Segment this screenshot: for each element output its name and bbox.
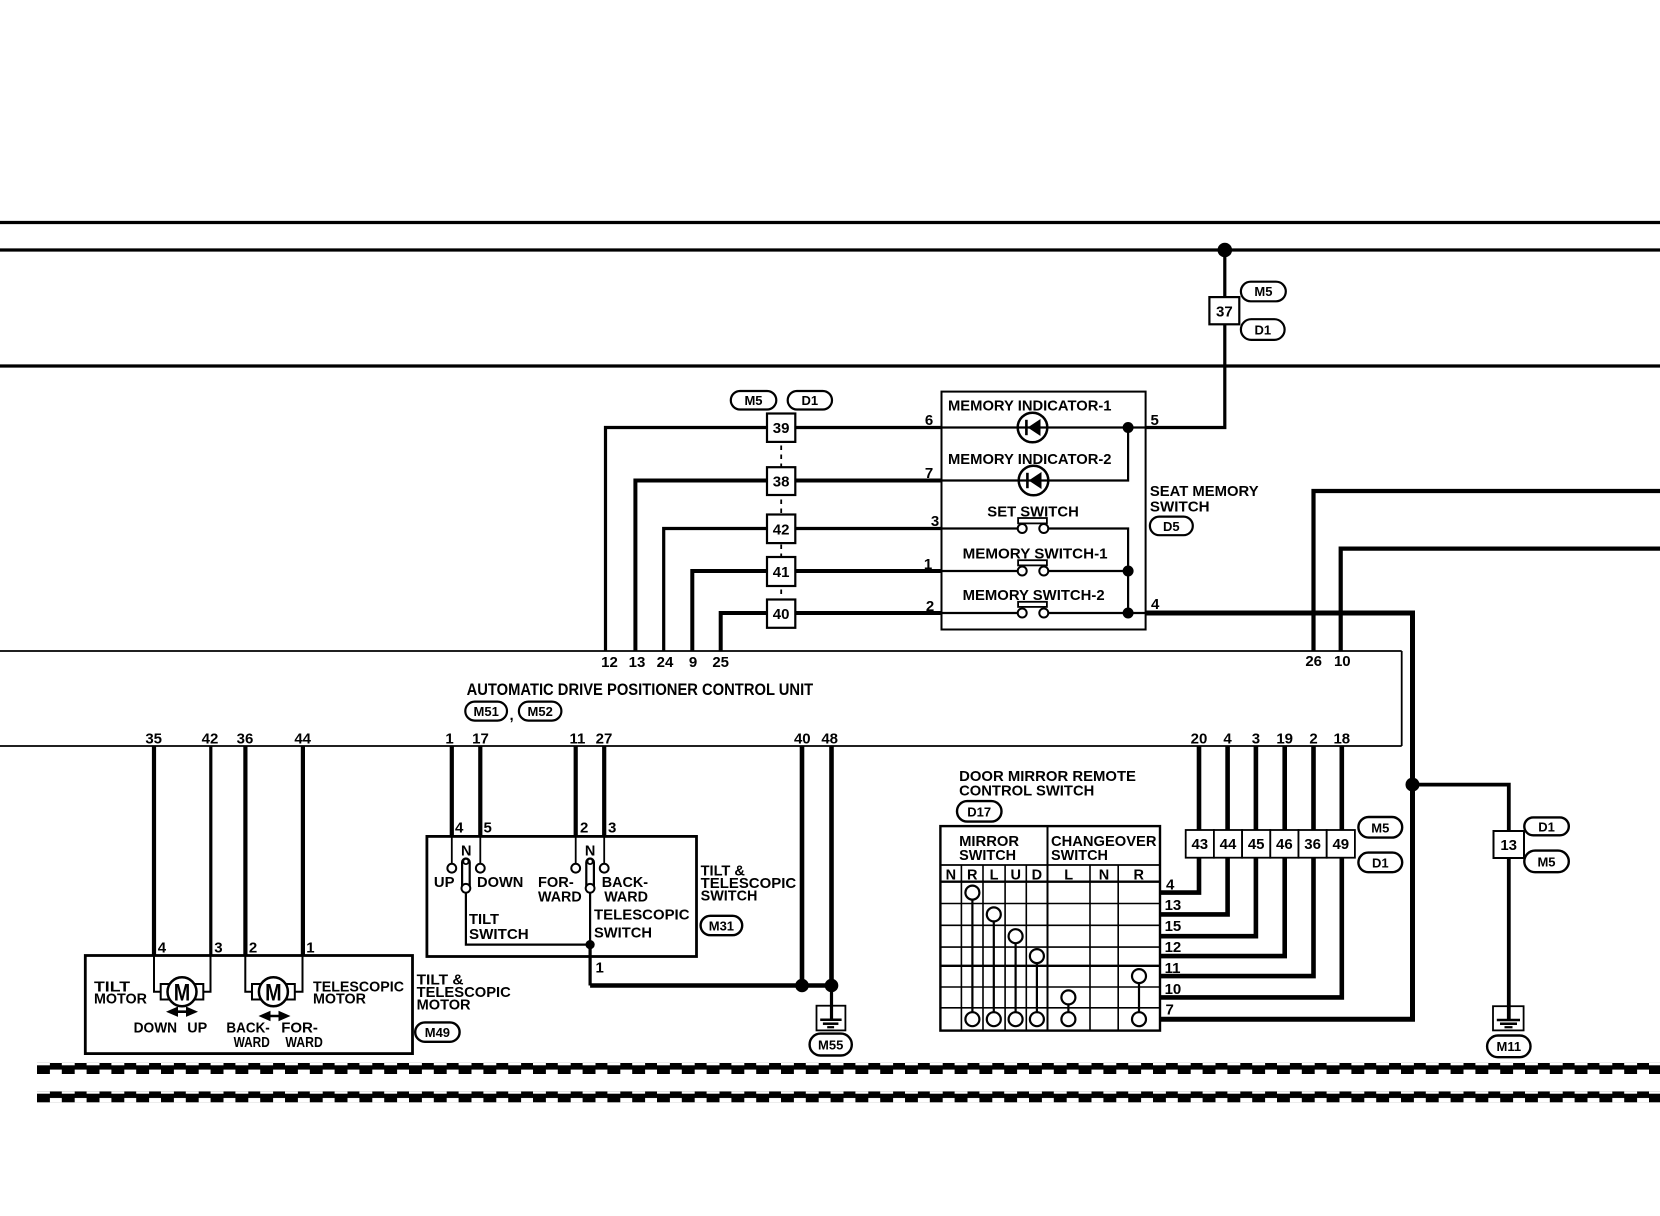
svg-text:1: 1 <box>924 556 932 573</box>
wire switch pin 1 down <box>588 945 591 986</box>
connector 40 <box>767 600 795 628</box>
contact row13 L <box>987 907 1001 921</box>
wire pin 1 to control unit pin 9 <box>692 571 941 651</box>
wire up contact stub <box>451 836 453 863</box>
wire bus line 3 <box>0 364 1660 367</box>
svg-text:15: 15 <box>1165 918 1182 935</box>
svg-text:M11: M11 <box>1497 1039 1522 1054</box>
wire memory switch-2 row right <box>1048 612 1145 614</box>
svg-text:43: 43 <box>1191 836 1208 853</box>
contact row7 R <box>965 1012 979 1026</box>
svg-text:AUTOMATIC DRIVE POSITIONER CON: AUTOMATIC DRIVE POSITIONER CONTROL UNIT <box>467 681 814 699</box>
wire tilt lever to junction <box>466 890 590 945</box>
wire pin 4 to mirror switch row 13 <box>1160 746 1228 914</box>
connector D17 oval <box>957 801 1002 822</box>
label telescopic switch <box>594 907 690 942</box>
svg-text:M51: M51 <box>474 704 499 719</box>
svg-text:M5: M5 <box>1537 855 1555 870</box>
wire contact link column L <box>993 921 995 1012</box>
svg-text:D1: D1 <box>1254 323 1271 338</box>
seat memory switch box D5 <box>942 392 1146 630</box>
contact row12 D <box>1030 949 1044 963</box>
connector 42 <box>767 515 795 544</box>
wire dashed link between connectors <box>780 428 782 614</box>
wire set switch row left <box>942 527 1018 529</box>
connector M5 oval above 39 <box>731 391 777 410</box>
label forward <box>538 874 582 906</box>
wire control unit pin 10 to right edge <box>1341 549 1660 651</box>
contact up <box>447 864 456 873</box>
connector 43 <box>1186 830 1214 858</box>
wire pin 40 to ground node <box>800 746 805 986</box>
svg-text:13: 13 <box>1165 897 1182 914</box>
wire contact link changeover L <box>1067 1004 1069 1012</box>
svg-text:D1: D1 <box>801 393 818 408</box>
contact row7 D <box>1030 1012 1044 1026</box>
wire pin 20 to mirror switch row 4 <box>1160 746 1199 893</box>
wire pin 35 to tilt motor <box>152 746 156 956</box>
svg-text:25: 25 <box>712 654 729 671</box>
node junction feed wire <box>1406 778 1420 792</box>
wire memory switch-1 row right <box>1048 570 1128 572</box>
wire contact link changeover R <box>1138 983 1140 1012</box>
wire contact link column R <box>971 900 973 1013</box>
node junction pin 40 <box>795 979 809 993</box>
svg-text:3: 3 <box>608 820 616 837</box>
label telescopic motor <box>313 979 404 1008</box>
svg-text:WARD: WARD <box>285 1034 323 1051</box>
svg-text:36: 36 <box>1304 836 1321 853</box>
svg-text:L: L <box>1064 868 1073 884</box>
svg-text:17: 17 <box>472 731 489 748</box>
svg-text:CONTROL SWITCH: CONTROL SWITCH <box>959 782 1094 799</box>
ground M55 <box>817 1006 846 1031</box>
wire contact link column D <box>1036 963 1038 1012</box>
contact row11 changeover R <box>1132 969 1146 983</box>
mirror switch table grid <box>940 826 1160 1031</box>
svg-text:M: M <box>265 980 282 1007</box>
svg-text:12: 12 <box>601 654 618 671</box>
wire telescopic lever to junction <box>589 890 591 945</box>
lever tilt switch N <box>461 844 471 893</box>
contact forward <box>571 864 580 873</box>
label tilt switch <box>469 911 529 943</box>
svg-text:48: 48 <box>821 731 838 748</box>
svg-text:7: 7 <box>925 465 933 482</box>
svg-text:SWITCH: SWITCH <box>959 847 1016 864</box>
ground M11 <box>1493 1006 1524 1030</box>
svg-text:1: 1 <box>445 731 453 748</box>
svg-text:4: 4 <box>1151 596 1160 613</box>
svg-text:1: 1 <box>306 940 314 957</box>
svg-text:39: 39 <box>773 420 790 437</box>
connector 49 <box>1327 830 1355 858</box>
svg-text:SWITCH: SWITCH <box>1051 847 1108 864</box>
svg-text:R: R <box>1134 868 1145 884</box>
svg-text:7: 7 <box>1166 1002 1174 1019</box>
arrow tilt motor direction <box>166 1007 198 1017</box>
set switch symbol <box>1018 518 1049 533</box>
connector D1 oval right of 13 <box>1524 817 1569 835</box>
svg-text:UP: UP <box>187 1020 207 1037</box>
wire seat memory pin 4 feed to mirror switch row 7 <box>1146 613 1413 1019</box>
svg-text:M55: M55 <box>818 1038 843 1053</box>
svg-text:N: N <box>461 844 471 860</box>
wire pin 17 to tilt switch <box>478 746 482 836</box>
wire pin 2 to mirror switch row 11 <box>1160 746 1314 976</box>
node junction memory switch-2 <box>1123 608 1134 619</box>
connector 13 <box>1494 831 1525 858</box>
svg-text:11: 11 <box>569 731 585 748</box>
memory switch-1 symbol <box>1018 560 1049 575</box>
page separator bar 2 <box>37 1091 1660 1102</box>
connector M11 oval <box>1487 1036 1530 1058</box>
svg-text:SET SWITCH: SET SWITCH <box>987 503 1079 520</box>
connector M51 oval <box>465 702 507 721</box>
wire to ground M55 <box>830 986 833 1020</box>
svg-text:41: 41 <box>773 564 790 581</box>
svg-text:M5: M5 <box>1371 821 1389 836</box>
connector 45 <box>1242 830 1270 858</box>
svg-text:2: 2 <box>1309 731 1317 748</box>
svg-text:40: 40 <box>773 606 790 623</box>
connector 39 <box>767 414 795 442</box>
contact down <box>476 864 485 873</box>
svg-text:3: 3 <box>1252 731 1260 748</box>
svg-text:D1: D1 <box>1372 856 1389 871</box>
connector D5 oval <box>1150 517 1193 536</box>
contact row10 changeover L <box>1061 990 1075 1004</box>
svg-text:36: 36 <box>237 731 254 748</box>
wire pin 6 to control unit pin 12 <box>606 428 942 652</box>
motor tilt M <box>161 977 204 1006</box>
contact row7 L <box>987 1012 1001 1026</box>
node junction indicator rows <box>1123 422 1134 433</box>
connector M49 oval <box>415 1022 459 1041</box>
svg-text:MEMORY SWITCH-2: MEMORY SWITCH-2 <box>963 587 1105 604</box>
wire pin 42 to tilt motor <box>209 746 212 956</box>
lever telescopic switch N <box>585 844 595 893</box>
svg-text:SWITCH: SWITCH <box>594 925 652 942</box>
svg-text:10: 10 <box>1334 653 1351 670</box>
label column letters <box>946 868 1145 884</box>
svg-text:2: 2 <box>249 940 257 957</box>
wire down contact stub <box>479 836 481 863</box>
contact row7 changeover L <box>1061 1012 1075 1026</box>
LED memory indicator-2 <box>1019 466 1049 496</box>
svg-text:24: 24 <box>657 654 674 671</box>
svg-text:13: 13 <box>1500 837 1517 854</box>
wire memory switch-2 row left <box>942 612 1018 614</box>
svg-text:M5: M5 <box>1254 284 1272 299</box>
wire switch pin 1 to ground node <box>590 983 831 988</box>
svg-text:37: 37 <box>1216 304 1233 321</box>
svg-text:42: 42 <box>773 521 790 538</box>
svg-text:2: 2 <box>926 598 934 615</box>
motor telescopic M <box>252 977 295 1006</box>
wire backward contact stub <box>603 836 605 863</box>
contact row15 U <box>1009 929 1023 943</box>
wire set switch row right <box>1048 529 1128 614</box>
svg-text:26: 26 <box>1305 653 1322 670</box>
svg-text:5: 5 <box>1151 412 1159 429</box>
svg-text:49: 49 <box>1332 836 1349 853</box>
svg-text:,: , <box>510 707 514 724</box>
svg-text:R: R <box>967 868 978 884</box>
connector D1 oval above 39 <box>788 391 832 410</box>
wire pin 19 to mirror switch row 12 <box>1160 746 1285 956</box>
label seat memory switch <box>1150 483 1259 515</box>
connector M31 oval <box>701 916 743 935</box>
wire from bus to seat memory switch pin 5 <box>1146 250 1225 428</box>
svg-text:38: 38 <box>773 474 790 491</box>
svg-text:M49: M49 <box>425 1025 450 1040</box>
label backward <box>602 874 648 906</box>
node junction switch common <box>586 940 595 949</box>
svg-text:27: 27 <box>596 731 613 748</box>
svg-text:DOWN: DOWN <box>134 1020 178 1037</box>
svg-text:MOTOR: MOTOR <box>313 990 366 1007</box>
wire control unit pin 26 to right edge <box>1314 491 1660 651</box>
wire bus line 2 <box>0 248 1660 251</box>
control unit box top edge <box>0 650 1402 652</box>
connector 44 <box>1214 830 1242 858</box>
contact row7 U <box>1009 1012 1023 1026</box>
control unit box right edge <box>1401 651 1403 746</box>
svg-text:D17: D17 <box>967 805 991 820</box>
connector 37 <box>1209 297 1239 324</box>
svg-text:42: 42 <box>202 731 219 748</box>
connector D1 oval <box>1241 319 1285 340</box>
wire pin 27 to telescopic switch <box>602 746 606 836</box>
svg-text:18: 18 <box>1333 731 1350 748</box>
contact row4 R <box>965 886 979 900</box>
connector M55 oval <box>810 1034 852 1056</box>
svg-text:WARD: WARD <box>604 888 648 905</box>
svg-text:MEMORY INDICATOR-2: MEMORY INDICATOR-2 <box>948 451 1112 468</box>
svg-text:4: 4 <box>1166 877 1175 894</box>
connector M5 oval <box>1241 282 1286 302</box>
connector D1 oval right of 49 <box>1358 853 1402 873</box>
wire bus line 1 <box>0 221 1660 224</box>
wire pin 3 to control unit pin 24 <box>664 529 942 652</box>
svg-text:N: N <box>585 844 595 860</box>
svg-text:UP: UP <box>434 874 455 891</box>
svg-text:44: 44 <box>1220 836 1237 853</box>
wire forward contact stub <box>575 836 577 863</box>
control unit box bottom edge <box>0 745 1402 747</box>
svg-text:10: 10 <box>1165 981 1182 998</box>
label tilt motor <box>94 979 147 1008</box>
svg-text:4: 4 <box>1223 731 1232 748</box>
svg-text:WARD: WARD <box>234 1034 270 1051</box>
svg-text:44: 44 <box>294 731 311 748</box>
wire pin 36 to telescopic motor <box>243 746 247 956</box>
svg-text:9: 9 <box>689 654 697 671</box>
tilt and telescopic motor box M49 <box>85 956 412 1054</box>
label door mirror remote control switch <box>959 768 1136 799</box>
wire junction to ground M11 <box>1413 785 1509 1020</box>
label changeover switch header <box>1051 833 1157 864</box>
svg-text:11: 11 <box>1165 960 1181 977</box>
wire pin 7 to control unit pin 13 <box>635 481 941 652</box>
arrow telescopic motor direction <box>259 1011 291 1021</box>
svg-text:D5: D5 <box>1163 519 1180 534</box>
contact backward <box>600 864 609 873</box>
label tilt and telescopic motor <box>417 972 511 1014</box>
memory switch-2 symbol <box>1018 602 1049 618</box>
wire pin 2 to control unit pin 25 <box>721 613 942 651</box>
connector M52 oval <box>519 702 562 721</box>
svg-text:M52: M52 <box>528 704 553 719</box>
connector 46 <box>1270 830 1298 858</box>
connector 36 <box>1299 830 1327 858</box>
connector 41 <box>767 557 795 586</box>
svg-text:12: 12 <box>1165 939 1182 956</box>
node junction pin 48 <box>825 979 839 993</box>
svg-text:5: 5 <box>484 820 492 837</box>
svg-text:DOWN: DOWN <box>477 874 523 891</box>
svg-text:13: 13 <box>629 654 646 671</box>
svg-text:40: 40 <box>794 731 811 748</box>
svg-text:20: 20 <box>1191 731 1208 748</box>
svg-text:46: 46 <box>1276 836 1293 853</box>
tilt and telescopic switch box M31 <box>427 836 697 956</box>
connector M5 oval right of 49 <box>1358 817 1402 838</box>
svg-text:U: U <box>1010 868 1020 884</box>
label mirror switch header <box>959 833 1019 864</box>
wire tilt motor pin 3 <box>203 956 210 992</box>
svg-text:D: D <box>1032 868 1042 884</box>
svg-text:3: 3 <box>214 940 222 957</box>
svg-text:L: L <box>990 868 999 884</box>
wire pin 48 to ground node <box>829 746 834 986</box>
svg-text:2: 2 <box>580 820 588 837</box>
svg-text:3: 3 <box>931 513 939 530</box>
svg-text:D1: D1 <box>1538 820 1555 835</box>
svg-text:M31: M31 <box>709 918 734 933</box>
wire pin 44 to telescopic motor <box>301 746 305 956</box>
svg-text:35: 35 <box>145 731 162 748</box>
label down up <box>134 1020 208 1037</box>
label backward forward <box>226 1020 323 1051</box>
contact row7 changeover R <box>1132 1012 1146 1026</box>
svg-text:MEMORY INDICATOR-1: MEMORY INDICATOR-1 <box>948 398 1112 415</box>
wire pin 18 to mirror switch row 10 <box>1160 746 1342 997</box>
svg-text:N: N <box>946 868 956 884</box>
connector M5 oval right of 13 <box>1524 851 1569 873</box>
svg-text:TELESCOPIC: TELESCOPIC <box>594 907 690 924</box>
svg-text:SWITCH: SWITCH <box>701 887 758 904</box>
label tilt and telescopic switch <box>701 862 797 904</box>
connector 38 <box>767 467 795 495</box>
wire memory indicator-2 row <box>942 428 1129 481</box>
svg-text:6: 6 <box>925 412 933 429</box>
svg-text:4: 4 <box>158 940 167 957</box>
wire memory switch-1 row left <box>942 570 1018 572</box>
svg-text:M5: M5 <box>744 393 762 408</box>
svg-text:MEMORY SWITCH-1: MEMORY SWITCH-1 <box>963 546 1108 563</box>
svg-text:M: M <box>174 980 191 1007</box>
page separator bar 1 <box>37 1063 1660 1074</box>
wire pin 3 to mirror switch row 15 <box>1160 746 1256 936</box>
svg-text:19: 19 <box>1276 731 1293 748</box>
svg-text:1: 1 <box>596 960 604 977</box>
wire contact link column U <box>1014 943 1016 1012</box>
node junction memory switch-1 <box>1123 566 1134 577</box>
node junction on bus line 2 <box>1218 243 1233 258</box>
svg-text:SWITCH: SWITCH <box>1150 498 1210 515</box>
svg-text:N: N <box>1099 868 1109 884</box>
svg-text:MOTOR: MOTOR <box>94 990 147 1007</box>
wire tilt motor pin 4 <box>154 956 161 992</box>
LED memory indicator-1 <box>1018 413 1048 443</box>
svg-text:45: 45 <box>1248 836 1265 853</box>
svg-text:WARD: WARD <box>538 888 582 905</box>
wire memory indicator-1 row <box>942 426 1146 428</box>
wire pin 11 to telescopic switch <box>574 746 578 836</box>
svg-text:MOTOR: MOTOR <box>417 997 471 1014</box>
wire pin 1 to tilt switch <box>450 746 454 836</box>
wire telescopic motor pin 1 <box>295 956 303 992</box>
svg-text:SWITCH: SWITCH <box>469 926 529 943</box>
svg-text:4: 4 <box>455 820 464 837</box>
wire telescopic motor pin 2 <box>245 956 252 992</box>
